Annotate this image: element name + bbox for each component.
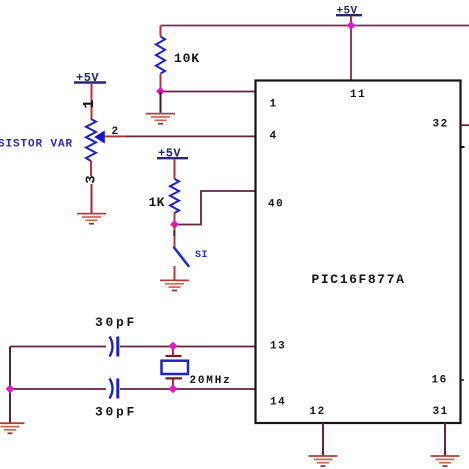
ground (under potentiometer) (77, 214, 106, 224)
svg-text:1: 1 (81, 100, 98, 109)
wire pin 31 to ground (444, 423, 446, 456)
node crystal top (169, 342, 178, 351)
wire pin 11 vertical (350, 26, 352, 81)
switch SI (174, 248, 208, 267)
node under R1 (156, 87, 165, 96)
wire pin 40 route (175, 191, 257, 225)
ground (under switch) (160, 280, 189, 290)
svg-text:PIC16F877A: PIC16F877A (312, 272, 406, 287)
resistor R2 1K (149, 179, 180, 213)
crystal X1 (162, 347, 232, 390)
wire pot bottom (90, 161, 92, 176)
svg-text:14: 14 (270, 397, 286, 409)
node rail junction (347, 21, 356, 30)
wire pin 1 (161, 91, 257, 93)
svg-text:10K: 10K (174, 51, 200, 66)
svg-text:SI: SI (195, 250, 208, 261)
wire OSC2 bottom run (10, 388, 256, 390)
svg-text:4: 4 (270, 131, 278, 143)
wire pin 16 stub (461, 379, 465, 381)
node R2/switch (170, 220, 179, 229)
wire pin 32 stub (461, 124, 469, 126)
wire pot top (91, 84, 93, 119)
svg-text:11: 11 (350, 89, 366, 101)
svg-text:20MHz: 20MHz (190, 375, 232, 387)
svg-text:12: 12 (310, 406, 326, 418)
svg-text:40: 40 (268, 199, 284, 211)
wire pot to ground (91, 184, 93, 213)
potentiometer RV1 (0, 119, 105, 161)
wire switch to ground (174, 266, 176, 280)
ground (left, crystal) (0, 423, 25, 433)
svg-text:31: 31 (433, 406, 449, 418)
power +5V (top right) (336, 6, 362, 25)
svg-text:3: 3 (84, 175, 100, 183)
wire node to switch (174, 225, 176, 248)
svg-text:30pF: 30pF (95, 315, 137, 330)
resistor R1 10K (156, 37, 200, 74)
capacitor C1 30pF (95, 315, 137, 357)
power +5V (1K resistor) (157, 147, 188, 161)
wire 10K top tail (160, 26, 162, 37)
svg-text:30pF: 30pF (95, 405, 137, 420)
wire 10K bottom tail (160, 74, 162, 92)
svg-text:16: 16 (432, 375, 448, 387)
pin stub (unlabeled, right edge) (461, 146, 465, 148)
node crystal bottom (169, 384, 178, 393)
ground (under R1) (146, 114, 175, 124)
wire top +5V rail (161, 25, 469, 27)
wire pin 4 (105, 135, 257, 137)
wire pin 12 to ground (322, 423, 324, 456)
wire left vertical (9, 347, 11, 423)
ground (pin 12) (309, 456, 338, 466)
svg-text:1: 1 (270, 99, 278, 111)
node left junction (6, 385, 15, 394)
capacitor C2 30pF (95, 379, 137, 420)
svg-text:SISTOR VAR: SISTOR VAR (0, 139, 73, 151)
svg-text:1K: 1K (149, 195, 165, 210)
wire R2 bottom tail (174, 213, 176, 225)
power +5V (potentiometer) (74, 71, 106, 85)
wire node to ground (160, 92, 162, 113)
ground (pin 31) (431, 456, 460, 466)
op IC U1 PIC16F877A box (256, 81, 461, 424)
wire R2 top tail (174, 160, 176, 180)
svg-text:13: 13 (270, 341, 286, 353)
wire OSC1 top run (10, 346, 256, 348)
svg-text:32: 32 (433, 119, 449, 131)
